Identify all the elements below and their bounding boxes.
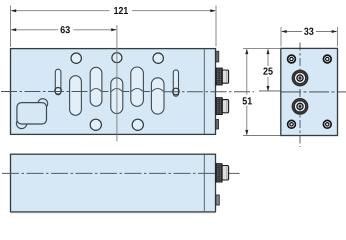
end view corner screw BR bbox=[323, 120, 331, 128]
plan view plate body bbox=[11, 49, 216, 135]
centerline hop over slotA bbox=[111, 89, 122, 92]
plan centerline left segment bbox=[1, 89, 254, 92]
plan fitting 1 cap bbox=[222, 70, 228, 83]
plan top screw tab bbox=[216, 51, 219, 62]
plan bottom screw tab bbox=[216, 120, 219, 130]
bottom hole 1 bbox=[90, 119, 101, 130]
plan view internal edge line bbox=[203, 49, 205, 135]
dim 51 line bbox=[246, 49, 248, 134]
dim 33 line bbox=[282, 31, 336, 33]
dim 63 line bbox=[12, 29, 116, 31]
keyhole slot left bbox=[55, 69, 61, 95]
slot A bbox=[111, 78, 123, 114]
end view fitting 2 bbox=[292, 98, 309, 115]
side view bottom shadow bbox=[11, 211, 215, 213]
end view vertical centerline bbox=[299, 43, 301, 148]
keyhole circle right bbox=[173, 88, 180, 95]
dim 63 extension line right (slot A axis) bbox=[116, 25, 118, 141]
dim 121 line bbox=[12, 10, 216, 12]
end view fitting 1 bbox=[292, 70, 309, 87]
side fitting knurl bbox=[216, 164, 222, 183]
rounded slot cutout circle bottom-left bbox=[16, 118, 26, 128]
keyhole slot right bbox=[173, 70, 178, 96]
top hole 3 bbox=[153, 53, 163, 63]
end view corner screw TR bbox=[323, 55, 331, 63]
side view plate body bbox=[11, 154, 216, 212]
centerline hop over slotC bbox=[152, 89, 164, 92]
end view corner screw TL bbox=[288, 55, 296, 63]
side bottom tab bbox=[216, 195, 219, 205]
top hole 2 bbox=[112, 53, 122, 63]
centerline hop over slotB bbox=[131, 89, 143, 92]
top hole 1 bbox=[71, 53, 81, 63]
bottom edge extension to the left (for 51) bbox=[243, 135, 280, 137]
slot 1 bbox=[70, 76, 82, 116]
plan fitting 2 knurl bbox=[216, 98, 222, 115]
end view corner screw BL bbox=[288, 120, 296, 128]
slot B bbox=[131, 67, 144, 106]
centerline through right side bbox=[164, 91, 255, 93]
rounded slot cutout circle top-right bbox=[38, 99, 48, 109]
dim 121 extension line right bbox=[215, 6, 217, 47]
keyhole circle left bbox=[55, 88, 62, 95]
end view horizontal centerline bbox=[281, 91, 346, 93]
end view plate body bbox=[281, 48, 338, 135]
dim text 51 bbox=[242, 97, 251, 104]
top edge extension to the left (for 25/51) bbox=[243, 47, 280, 49]
dim 33 extension line left bbox=[280, 27, 282, 47]
side fitting cap bbox=[222, 166, 229, 181]
slot C bbox=[151, 78, 164, 114]
dim 25 line bbox=[267, 49, 269, 91]
dim 33 extension line right bbox=[336, 27, 338, 47]
bottom hole 2 bbox=[132, 119, 143, 130]
dim 121 extension line left bbox=[10, 6, 12, 48]
rounded rectangle cutout bbox=[17, 103, 47, 124]
side view centerline bbox=[2, 172, 240, 174]
plan fitting 2 cap bbox=[222, 100, 228, 113]
dim text 121 bbox=[114, 7, 128, 14]
slot 2 bbox=[90, 67, 102, 106]
dim text 33 bbox=[304, 28, 313, 35]
dim text 25 bbox=[263, 67, 272, 74]
centerline hop over slot2 bbox=[91, 89, 102, 92]
dim text 63 bbox=[61, 26, 70, 33]
plan fitting 1 knurl bbox=[216, 68, 222, 85]
side view internal edge line bbox=[203, 154, 205, 212]
